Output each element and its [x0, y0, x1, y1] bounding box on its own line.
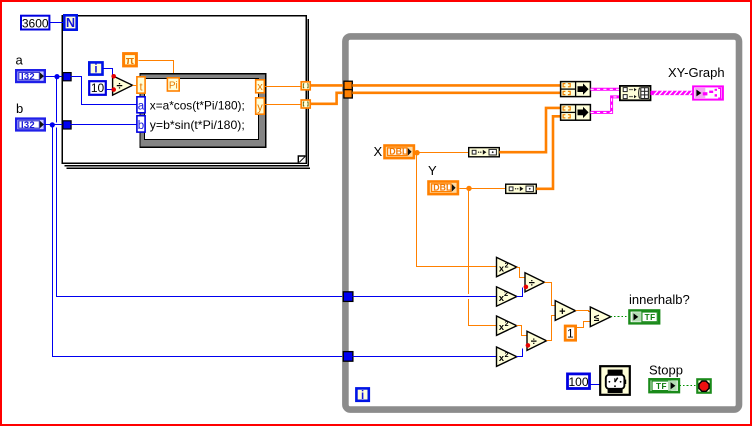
constant 100 — [568, 374, 590, 389]
svg-text:Pi: Pi — [169, 81, 178, 92]
array wire x to bundle 1 — [352, 84, 561, 87]
formula input a — [137, 97, 145, 113]
svg-text:N: N — [66, 16, 75, 30]
svg-text:b: b — [138, 120, 144, 132]
coercion dot divide1 — [524, 285, 529, 290]
svg-text:I32: I32 — [21, 120, 35, 131]
svg-text:i: i — [361, 390, 364, 402]
coercion dot divide input 1 — [111, 74, 116, 79]
bundle node 1 (curve) — [561, 82, 591, 97]
wire b to square 4 — [353, 356, 497, 358]
while loop tunnel y — [344, 90, 352, 98]
wire a inside for loop to formula node — [71, 77, 137, 105]
svg-text:DBL: DBL — [389, 147, 408, 157]
wire pi to Pi terminal — [139, 61, 174, 75]
wire divide2 to add — [547, 316, 556, 341]
junction dot b — [50, 122, 55, 127]
build array node (2 clusters) — [620, 86, 651, 100]
svg-text:÷: ÷ — [531, 336, 537, 348]
cluster wire bundle1 to build array — [591, 88, 621, 91]
TF control Stopp — [649, 379, 679, 392]
svg-text:100: 100 — [568, 375, 588, 389]
I32 control a — [16, 70, 45, 82]
tunnel a on for loop border — [63, 73, 71, 81]
cluster wire bundle2 to build array — [591, 97, 621, 113]
svg-text:1: 1 — [567, 327, 574, 341]
svg-text:a: a — [16, 53, 24, 68]
boolean wire Stopp to loop condition — [680, 385, 697, 387]
wire divide to t — [133, 85, 137, 87]
formula node text — [150, 98, 245, 132]
svg-text:i: i — [94, 64, 97, 76]
divide function 1 — [525, 273, 544, 292]
wire square3 to divide2 — [517, 326, 528, 336]
svg-text:≤: ≤ — [594, 313, 600, 324]
array wire y into while loop — [310, 93, 345, 104]
wire X to build array node 1 — [416, 152, 469, 154]
array-of-cluster wire to XY-Graph — [651, 91, 694, 95]
wire node1 to bundle 2 — [499, 108, 561, 152]
coercion dot divide2 — [526, 343, 531, 348]
wire b to for-loop tunnel — [45, 124, 63, 126]
XY-Graph terminal — [693, 86, 723, 99]
constant 1 — [565, 326, 575, 341]
wire y to auto-index tunnel — [264, 104, 301, 106]
iteration terminal i (while loop) — [356, 388, 368, 401]
svg-text:b: b — [16, 101, 23, 116]
for loop structure border — [62, 16, 310, 169]
formula output y — [256, 98, 265, 114]
svg-text:y=b*sin(t*Pi/180);: y=b*sin(t*Pi/180); — [150, 118, 245, 132]
svg-text:3600: 3600 — [22, 16, 49, 30]
auto-index tunnel x — [301, 82, 310, 90]
less-equal function — [590, 307, 611, 327]
formula input Pi — [167, 78, 179, 92]
wire Y branch down to square 3 — [468, 189, 470, 295]
svg-text:x=a*cos(t*Pi/180);: x=a*cos(t*Pi/180); — [150, 98, 245, 112]
formula input t — [137, 77, 145, 94]
coercion dot divide input 2 — [111, 87, 116, 92]
svg-text:y: y — [257, 102, 263, 114]
wire Y to build array node 2 — [460, 188, 506, 190]
array wire x into while loop — [310, 84, 345, 87]
wire x to auto-index tunnel — [264, 86, 301, 88]
auto-index tunnel y — [301, 100, 310, 108]
wire a to for-loop tunnel — [45, 76, 63, 78]
pi constant — [124, 54, 137, 67]
square function 1 (X^2) — [497, 257, 517, 276]
wire 1 to less-equal — [577, 322, 591, 328]
wire square1 to divide1 — [517, 268, 526, 278]
for loop corner fold — [298, 156, 305, 163]
wire add to less-equal — [576, 311, 591, 312]
svg-text:TF: TF — [656, 382, 667, 391]
wire i to divide — [103, 69, 113, 77]
svg-text:2: 2 — [505, 352, 509, 359]
boolean wire to innerhalb indicator — [611, 316, 629, 318]
divide function 2 — [527, 331, 547, 350]
divide function — [113, 76, 133, 95]
tunnel b on for loop border — [63, 121, 71, 129]
wait until next ms multiple function — [600, 366, 630, 395]
svg-text:Stopp: Stopp — [649, 363, 683, 378]
svg-text:innerhalb?: innerhalb? — [629, 292, 690, 307]
svg-text:+: + — [559, 306, 565, 318]
svg-text:2: 2 — [505, 263, 509, 270]
N loop count terminal — [64, 15, 76, 30]
constant 3600 — [21, 16, 49, 31]
formula node frame — [140, 74, 266, 148]
while loop structure border — [345, 36, 739, 409]
while loop tunnel b (blue) — [343, 352, 353, 362]
wire square4 to divide2 (blue) — [517, 349, 523, 357]
build array node 2 (Y scalar to array) — [506, 184, 537, 193]
wire a to square 2 — [353, 296, 497, 298]
wire 100 to wait — [591, 384, 601, 386]
svg-text:÷: ÷ — [116, 81, 122, 93]
wire a branch down to while loop — [56, 77, 58, 123]
svg-text:X: X — [374, 144, 383, 159]
svg-text:XY-Graph: XY-Graph — [668, 65, 725, 80]
TF indicator innerhalb — [629, 310, 659, 323]
svg-text:2: 2 — [505, 321, 509, 328]
while loop tunnel x — [344, 81, 352, 89]
DBL control Y — [429, 182, 458, 195]
svg-text:÷: ÷ — [529, 278, 535, 290]
wire b inside for loop to formula node — [71, 124, 137, 126]
formula output x — [256, 80, 265, 93]
while loop tunnel a (blue) — [343, 292, 353, 302]
wire square2 to divide1 (blue) — [517, 288, 523, 297]
loop condition terminal (stop if true) — [697, 379, 710, 392]
wire 3600 to N — [50, 22, 65, 24]
square function 3 (Y^2) — [497, 316, 517, 335]
svg-text:I32: I32 — [21, 72, 35, 83]
svg-text:x: x — [257, 81, 263, 93]
add function — [555, 301, 575, 321]
square function 2 (a^2) — [497, 287, 517, 306]
svg-text:2: 2 — [504, 289, 508, 298]
square function 4 (b^2) — [497, 347, 517, 366]
X output junction dot — [414, 150, 419, 155]
constant 10 — [89, 81, 106, 95]
wire divide1 to add — [545, 283, 556, 306]
wire b branch down to while loop — [53, 125, 343, 357]
svg-text:π: π — [126, 55, 135, 67]
svg-text:TF: TF — [645, 313, 656, 322]
wire 10 to divide — [106, 89, 113, 91]
svg-text:10: 10 — [91, 81, 105, 95]
wire node2 to bundle 2 — [536, 116, 561, 189]
I32 control b — [16, 119, 45, 131]
bundle node 2 (point) — [561, 105, 591, 121]
junction dot a — [54, 74, 59, 79]
svg-text:Y: Y — [428, 163, 437, 178]
svg-text:DBL: DBL — [433, 183, 452, 193]
svg-text:t: t — [139, 81, 142, 93]
iteration terminal i (for loop) — [89, 62, 102, 75]
formula input b — [137, 116, 145, 132]
svg-text:a: a — [138, 100, 145, 112]
wire X branch down to square 1 — [417, 153, 497, 267]
DBL control X — [385, 146, 414, 159]
Y output junction dot — [466, 186, 471, 191]
build array node 1 (X scalar to array) — [469, 148, 500, 157]
array wire y to bundle 1 — [352, 92, 561, 95]
